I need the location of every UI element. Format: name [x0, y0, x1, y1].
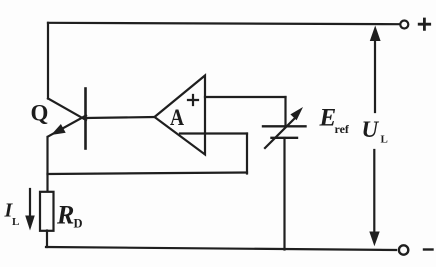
- svg-text:L: L: [381, 134, 388, 146]
- transistor Q emitter lead: [48, 116, 86, 137]
- op-amp plus input mark: [188, 95, 198, 105]
- wire Eref to bottom rail: [283, 138, 285, 250]
- wire feedback horizontal: [48, 173, 248, 175]
- svg-text:L: L: [12, 216, 19, 228]
- plus label: [419, 19, 430, 29]
- wire bottom rail: [46, 247, 396, 250]
- svg-text:D: D: [74, 217, 83, 231]
- svg-text:ref: ref: [335, 122, 350, 136]
- wire top rail: [48, 23, 399, 24]
- wire emitter down to resistor: [46, 137, 48, 192]
- IL current arrow: [29, 189, 31, 216]
- wire base to op-amp output: [86, 117, 155, 118]
- wire inverting input: [180, 132, 247, 134]
- UL dimension line lower: [373, 150, 375, 232]
- wire left collector riser: [47, 23, 49, 99]
- svg-text:Q: Q: [31, 101, 49, 126]
- wire resistor to bottom rail: [46, 231, 48, 248]
- wire down to Eref: [284, 97, 286, 126]
- transistor Q collector lead: [48, 99, 86, 121]
- op-amp A triangle: [155, 76, 206, 155]
- svg-text:A: A: [170, 105, 184, 130]
- minus label: [424, 248, 433, 250]
- Eref top plate: [263, 125, 306, 127]
- svg-text:R: R: [56, 201, 74, 230]
- terminal + output circle: [400, 21, 408, 29]
- terminal - output circle: [399, 245, 408, 254]
- transistor Q emitter arrowhead: [51, 124, 66, 135]
- transistor Q base bar: [84, 89, 87, 149]
- wire non-inverting input: [205, 96, 286, 98]
- resistor RD body: [40, 192, 54, 231]
- svg-text:U: U: [362, 117, 380, 142]
- UL dimension line upper: [374, 40, 376, 112]
- Eref variable arrow: [265, 118, 296, 149]
- wire feedback vertical: [246, 134, 248, 174]
- Eref bottom plate: [272, 137, 298, 139]
